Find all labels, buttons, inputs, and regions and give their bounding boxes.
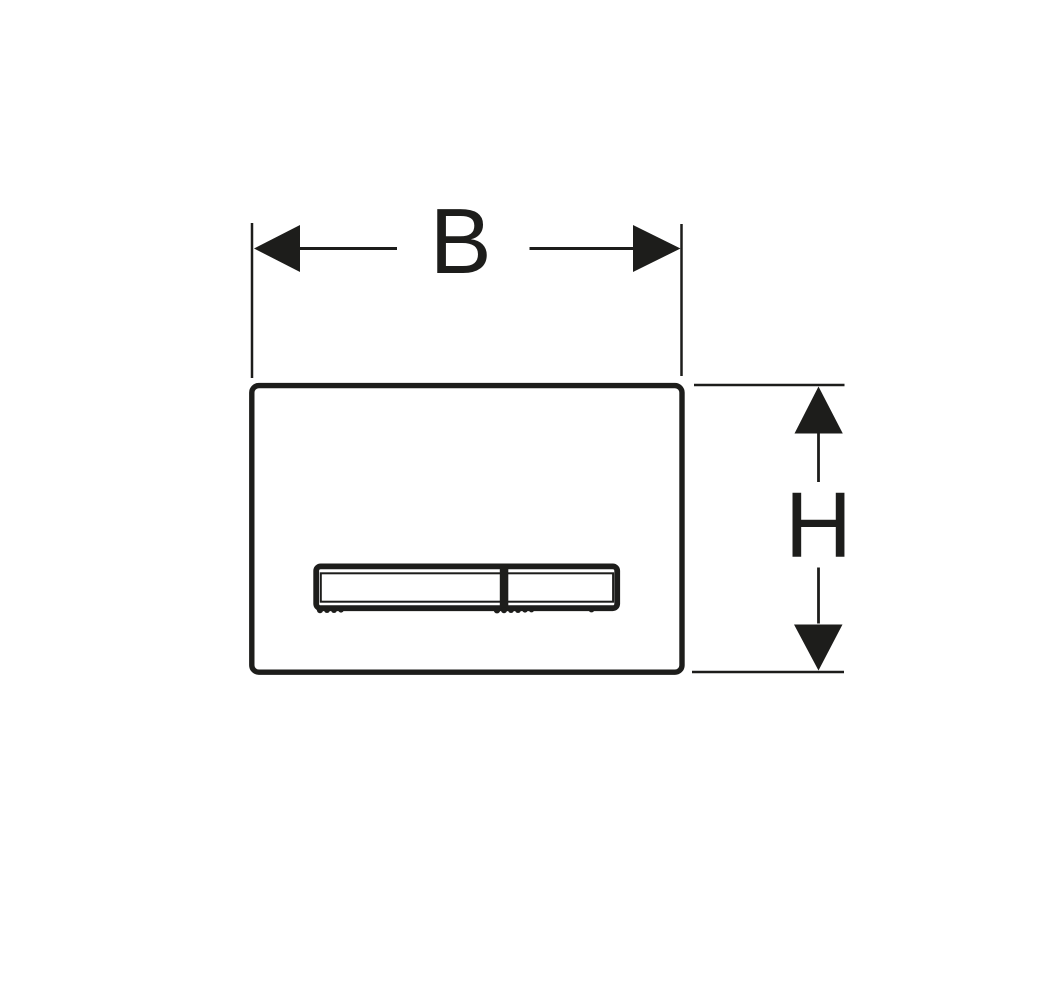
B dimension: right extension line <box>680 224 683 376</box>
B dimension: right line segment <box>530 247 636 250</box>
B dimension: left line segment <box>298 247 397 250</box>
button bar divider <box>500 566 509 609</box>
svg-text:B: B <box>430 189 492 293</box>
H dimension: bottom extension line <box>692 671 844 674</box>
B dimension: left arrow <box>254 225 300 272</box>
button bar outer frame <box>316 566 617 608</box>
button bar inner thin rectangle <box>321 573 613 601</box>
B dimension: left extension line <box>251 223 254 378</box>
smudge marks under bar left <box>317 607 344 613</box>
flush plate outline <box>252 386 682 673</box>
smudge mark under bar right <box>589 607 595 613</box>
H dimension: top extension line <box>694 384 845 387</box>
H dimension: down arrow <box>794 625 843 671</box>
smudge marks under bar middle <box>494 607 534 613</box>
svg-text:H: H <box>785 473 852 577</box>
H dimension: upper line segment <box>817 433 820 482</box>
B dimension: right arrow <box>633 225 681 272</box>
H dimension: up arrow <box>795 387 843 434</box>
H dimension: lower line segment <box>817 568 820 624</box>
